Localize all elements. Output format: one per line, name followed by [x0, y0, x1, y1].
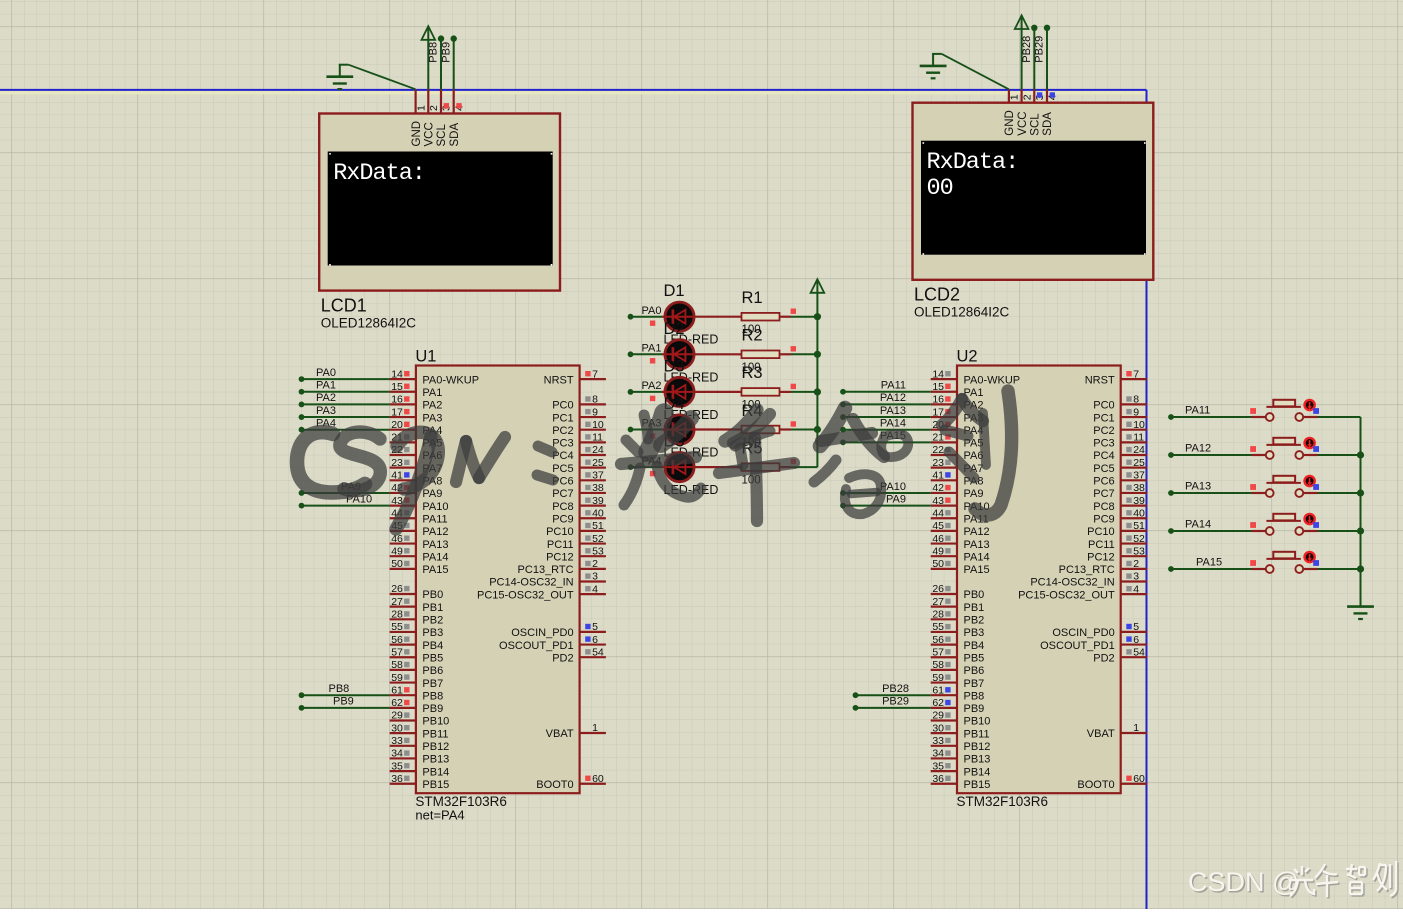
wire ground to LCD1 pin 1 — [348, 65, 415, 90]
wire net PA4 (U1) — [299, 427, 390, 433]
svg-text:VBAT: VBAT — [1087, 728, 1115, 740]
wire SCL (LCD1) — [438, 35, 444, 90]
svg-text:58: 58 — [391, 659, 403, 671]
svg-text:57: 57 — [932, 646, 944, 658]
svg-text:PB0: PB0 — [964, 589, 985, 601]
component ref D4 — [664, 395, 685, 413]
resistor R3 pin indicator — [791, 384, 796, 389]
svg-text:VCC: VCC — [1017, 111, 1029, 135]
svg-text:40: 40 — [1133, 507, 1145, 519]
U2 pin 30 PB11 — [931, 722, 990, 740]
LED D2 value LED-RED — [664, 370, 719, 384]
svg-text:57: 57 — [391, 646, 403, 658]
U2 pin 29 PB10 — [931, 710, 991, 728]
U1 pin 15 PA1 — [390, 381, 443, 399]
U2 pin 46 PA13 — [931, 533, 990, 551]
svg-text:PB9: PB9 — [440, 42, 452, 63]
svg-text:53: 53 — [592, 545, 604, 557]
U1 pin 49 PA14 — [390, 545, 449, 563]
LCD1 screen — [328, 152, 553, 266]
LCD2 screen — [921, 141, 1146, 255]
svg-text:2: 2 — [428, 105, 440, 111]
U1 pin 11 PC3 — [552, 432, 606, 450]
U2 pin 2 PC13_RTC — [1059, 558, 1147, 576]
net label PA10 (U2) — [880, 481, 906, 493]
svg-text:40: 40 — [592, 507, 604, 519]
U1 pin 5 OSCIN_PD0 — [511, 621, 606, 639]
svg-text:PB14: PB14 — [964, 766, 991, 778]
component ref R1 — [742, 289, 763, 307]
svg-text:9: 9 — [1133, 406, 1139, 418]
U2 pin 38 PC7 — [1093, 482, 1147, 500]
svg-text:PA14: PA14 — [880, 418, 906, 430]
ground (buttons) — [1347, 607, 1374, 619]
LED D5 — [662, 453, 742, 482]
U1 pin 38 PC7 — [552, 482, 606, 500]
button SW4 — [1252, 514, 1318, 535]
button SW3 — [1252, 476, 1318, 497]
svg-text:PA13: PA13 — [422, 539, 448, 551]
svg-text:54: 54 — [1133, 646, 1145, 658]
svg-text:16: 16 — [391, 394, 403, 406]
svg-text:10: 10 — [592, 419, 604, 431]
svg-text:PB0: PB0 — [422, 589, 443, 601]
net label PB8 — [428, 42, 440, 63]
net label PA2 — [642, 380, 662, 392]
svg-text:PC4: PC4 — [1093, 450, 1114, 462]
svg-text:20: 20 — [391, 419, 403, 431]
svg-text:PA13: PA13 — [964, 539, 990, 551]
component ref R2 — [742, 327, 763, 345]
svg-text:PA15: PA15 — [1196, 557, 1222, 569]
U2 pin 17 PA3 — [931, 406, 984, 424]
button SW5 pin indicator left — [1250, 560, 1256, 566]
svg-text:55: 55 — [391, 621, 403, 633]
resistor R5 — [742, 463, 792, 471]
resistor R2 pin indicator — [791, 346, 796, 351]
svg-text:28: 28 — [932, 609, 944, 621]
net label PB28 — [1021, 36, 1033, 63]
component ref U1 — [415, 348, 436, 366]
svg-text:34: 34 — [391, 748, 403, 760]
svg-text:44: 44 — [932, 507, 944, 519]
svg-text:60: 60 — [1133, 773, 1145, 785]
svg-text:OSCIN_PD0: OSCIN_PD0 — [1052, 627, 1114, 639]
svg-text:D1: D1 — [664, 282, 685, 300]
svg-text:PB15: PB15 — [422, 779, 449, 791]
svg-text:42: 42 — [932, 482, 944, 494]
wire net PA10 (U1) — [299, 503, 390, 509]
U2 pin 20 PA4 — [931, 419, 984, 437]
U2 pin 25 PC5 — [1093, 457, 1147, 475]
svg-text:PA10: PA10 — [422, 501, 448, 513]
net label PA14 (button) — [1185, 519, 1211, 531]
component ref D3 — [664, 357, 685, 375]
svg-text:46: 46 — [932, 533, 944, 545]
svg-text:43: 43 — [932, 495, 944, 507]
svg-text:LCD1: LCD1 — [321, 296, 367, 316]
svg-text:41: 41 — [932, 470, 944, 482]
svg-text:R3: R3 — [742, 364, 763, 382]
svg-text:7: 7 — [592, 368, 598, 380]
U2 pin 23 PA7 — [931, 457, 984, 475]
svg-text:PC2: PC2 — [552, 425, 573, 437]
svg-text:PA0-WKUP: PA0-WKUP — [422, 374, 479, 386]
U2 pin 57 PB5 — [931, 646, 985, 664]
svg-text:PB3: PB3 — [422, 627, 443, 639]
svg-text:PC10: PC10 — [1087, 526, 1115, 538]
svg-text:PC10: PC10 — [546, 526, 574, 538]
svg-text:62: 62 — [391, 697, 403, 709]
svg-text:11: 11 — [1133, 432, 1144, 444]
button SW2 pin indicator right — [1313, 446, 1319, 452]
svg-text:36: 36 — [391, 773, 403, 785]
component ref D5 — [664, 433, 685, 451]
net label PA13 (U2) — [880, 405, 906, 417]
svg-text:27: 27 — [932, 596, 944, 608]
svg-text:24: 24 — [592, 444, 604, 456]
svg-text:OLED12864I2C: OLED12864I2C — [321, 316, 417, 331]
net label PB29 — [1034, 36, 1046, 63]
svg-text:16: 16 — [932, 394, 944, 406]
svg-text:58: 58 — [932, 659, 944, 671]
wire button row 4 to ground rail — [1318, 527, 1365, 534]
svg-text:PC11: PC11 — [547, 539, 574, 551]
button SW2 pin indicator left — [1250, 446, 1256, 452]
wire net PA15 (U2) — [840, 439, 931, 445]
net label PB9 (U1) — [333, 696, 354, 708]
svg-text:41: 41 — [391, 470, 403, 482]
wire SDA (LCD2) — [1044, 25, 1050, 90]
power VCC arrow (LCD1) — [422, 26, 436, 90]
svg-text:27: 27 — [391, 596, 403, 608]
svg-text:56: 56 — [932, 634, 944, 646]
svg-text:30: 30 — [391, 722, 403, 734]
svg-text:PB8: PB8 — [422, 690, 443, 702]
U1 pin 14 PA0-WKUP — [390, 368, 479, 386]
U2 pin 33 PB12 — [931, 735, 991, 753]
wire PA12 to button — [1168, 452, 1251, 458]
svg-text:PC7: PC7 — [552, 488, 573, 500]
svg-text:PA11: PA11 — [1185, 405, 1210, 417]
svg-text:U2: U2 — [957, 348, 978, 366]
U1 pin 23 PA7 — [390, 457, 443, 475]
svg-text:PC5: PC5 — [1093, 463, 1114, 475]
net label PA4 (U1) — [316, 418, 336, 430]
svg-text:2: 2 — [592, 558, 598, 570]
svg-text:PA11: PA11 — [881, 380, 906, 392]
wire R2 to rail — [791, 351, 821, 358]
svg-text:PB29: PB29 — [1034, 36, 1046, 63]
U2 pin 22 PA6 — [931, 444, 984, 462]
U2 pin 4 PC15-OSC32_OUT — [1018, 583, 1147, 601]
U1 pin 57 PB5 — [390, 646, 444, 664]
U1 pin 27 PB1 — [390, 596, 444, 614]
svg-text:PB28: PB28 — [882, 683, 909, 695]
svg-text:39: 39 — [592, 495, 604, 507]
wire net PA14 (U2) — [840, 427, 931, 433]
U2 pin 44 PA11 — [931, 507, 989, 525]
U1 pin 42 PA9 — [390, 482, 443, 500]
net label PA3 (U1) — [316, 405, 336, 417]
svg-text:51: 51 — [1133, 520, 1145, 532]
svg-text:OSCIN_PD0: OSCIN_PD0 — [511, 627, 573, 639]
wire PA13 to button — [1168, 490, 1251, 496]
svg-text:49: 49 — [932, 545, 944, 557]
wire bus vertical — [1146, 90, 1148, 909]
svg-text:37: 37 — [592, 470, 604, 482]
LED D3 — [662, 377, 742, 406]
svg-text:PB9: PB9 — [333, 696, 354, 708]
svg-text:RxData:: RxData: — [927, 149, 1019, 176]
U1 pin 52 PC11 — [547, 533, 606, 551]
wire net PA9 (U1) — [299, 490, 390, 496]
svg-text:PA9: PA9 — [422, 488, 442, 500]
svg-text:R1: R1 — [742, 289, 763, 307]
svg-text:55: 55 — [932, 621, 944, 633]
svg-text:GND: GND — [411, 121, 423, 147]
U2 pin 37 PC6 — [1093, 470, 1147, 488]
net label PA3 — [642, 418, 662, 430]
svg-text:PB10: PB10 — [964, 716, 991, 728]
svg-text:22: 22 — [932, 444, 944, 456]
svg-text:36: 36 — [932, 773, 944, 785]
wire bus horizontal — [0, 89, 1147, 91]
svg-text:1: 1 — [415, 105, 427, 111]
svg-text:PB15: PB15 — [964, 779, 991, 791]
svg-text:PC14-OSC32_IN: PC14-OSC32_IN — [1030, 577, 1114, 589]
svg-text:OLED12864I2C: OLED12864I2C — [914, 305, 1010, 320]
svg-text:50: 50 — [391, 558, 403, 570]
U2 pin 5 OSCIN_PD0 — [1052, 621, 1147, 639]
svg-text:PB2: PB2 — [964, 615, 985, 627]
U1 pin 61 PB8 — [390, 684, 444, 702]
wire PA2 to D3 — [628, 389, 662, 395]
U1 pin 55 PB3 — [390, 621, 444, 639]
U1 pin 60 BOOT0 — [536, 773, 606, 791]
LCD1 pin stubs 1-4 — [416, 90, 454, 114]
svg-text:PC0: PC0 — [1093, 400, 1114, 412]
LCD2 value OLED12864I2C — [914, 305, 1010, 320]
svg-text:PB28: PB28 — [1021, 36, 1033, 63]
svg-text:SCL: SCL — [436, 124, 448, 147]
svg-text:PC9: PC9 — [552, 513, 573, 525]
U2 pin 14 PA0-WKUP — [931, 368, 1020, 386]
U2 pin 10 PC2 — [1093, 419, 1147, 437]
LED D2 — [662, 340, 742, 369]
svg-text:NRST: NRST — [544, 374, 574, 386]
svg-text:2: 2 — [1021, 94, 1033, 100]
svg-text:15: 15 — [932, 381, 944, 393]
svg-text:PC7: PC7 — [1093, 488, 1114, 500]
net label PA13 (button) — [1185, 481, 1211, 493]
svg-text:1: 1 — [592, 722, 598, 734]
wire PA4 to D5 — [628, 464, 662, 470]
svg-text:26: 26 — [932, 583, 944, 595]
wire PA3 to D4 — [628, 427, 662, 433]
svg-text:PB5: PB5 — [964, 652, 985, 664]
U1 pin 6 OSCOUT_PD1 — [499, 634, 606, 652]
svg-text:53: 53 — [1133, 545, 1145, 557]
wire net PB29 (U2) — [853, 705, 931, 711]
U2 pin 27 PB1 — [931, 596, 985, 614]
U2 pin 35 PB14 — [931, 760, 991, 778]
svg-text:PC12: PC12 — [546, 551, 574, 563]
resistor R2 — [742, 351, 792, 359]
svg-text:49: 49 — [391, 545, 403, 557]
svg-text:PA12: PA12 — [422, 526, 448, 538]
button SW1 actuator — [1305, 400, 1315, 410]
svg-text:17: 17 — [391, 406, 403, 418]
svg-text:PA12: PA12 — [880, 392, 906, 404]
U1 pin 2 PC13_RTC — [518, 558, 606, 576]
wire net PB9 (U1) — [299, 705, 390, 711]
button SW3 actuator — [1305, 476, 1315, 486]
component ref LCD1 — [321, 296, 367, 316]
svg-text:5: 5 — [1133, 621, 1139, 633]
svg-text:PA1: PA1 — [316, 380, 336, 392]
svg-text:PC5: PC5 — [552, 463, 573, 475]
svg-text:29: 29 — [391, 710, 403, 722]
svg-text:U1: U1 — [415, 348, 436, 366]
U1 pin 59 PB7 — [390, 672, 444, 690]
U2 value STM32F103R6 — [957, 794, 1049, 809]
highlight band under bus — [0, 91, 1147, 94]
net label PA0 — [642, 305, 662, 317]
ground (near LCD1) — [326, 65, 353, 89]
watermark CSDN calligraphy — [297, 391, 1012, 529]
svg-text:PA3: PA3 — [316, 405, 336, 417]
svg-text:35: 35 — [391, 760, 403, 772]
svg-text:PA15: PA15 — [964, 564, 990, 576]
button SW5 actuator — [1305, 552, 1315, 562]
svg-text:26: 26 — [391, 583, 403, 595]
svg-text:R2: R2 — [742, 327, 763, 345]
svg-text:GND: GND — [1004, 110, 1016, 136]
svg-text:14: 14 — [932, 368, 944, 380]
net label PA9 (U2) — [886, 493, 906, 505]
U2 pin 55 PB3 — [931, 621, 985, 639]
svg-text:PB8: PB8 — [428, 42, 440, 63]
wire button row 2 to ground rail — [1318, 451, 1365, 458]
LED D5 pin indicator — [650, 471, 655, 476]
U1 pin 53 PC12 — [546, 545, 606, 563]
U1 pin 9 PC1 — [552, 406, 606, 424]
LED D1 pin indicator — [650, 321, 655, 326]
svg-text:45: 45 — [932, 520, 944, 532]
U1 pin 21 PA5 — [390, 432, 443, 450]
svg-text:PC13_RTC: PC13_RTC — [518, 564, 574, 576]
svg-text:61: 61 — [391, 684, 403, 696]
svg-text:PC6: PC6 — [1093, 476, 1114, 488]
svg-text:9: 9 — [592, 406, 598, 418]
svg-text:PA14: PA14 — [1185, 519, 1211, 531]
svg-text:PB14: PB14 — [422, 766, 449, 778]
wire net PA12 (U2) — [840, 402, 931, 408]
U2 pin 51 PC10 — [1087, 520, 1147, 538]
net label PA9 (U1) — [341, 481, 361, 493]
svg-text:59: 59 — [391, 672, 403, 684]
svg-text:PC11: PC11 — [1088, 539, 1115, 551]
svg-text:3: 3 — [1133, 571, 1139, 583]
svg-text:PA13: PA13 — [1185, 481, 1211, 493]
U1 pin 29 PB10 — [390, 710, 450, 728]
svg-text:33: 33 — [932, 735, 944, 747]
MCU U1 body — [416, 366, 580, 794]
svg-text:PD2: PD2 — [552, 652, 573, 664]
svg-text:PC9: PC9 — [1093, 513, 1114, 525]
button SW2 — [1252, 438, 1318, 459]
svg-text:PB1: PB1 — [964, 602, 985, 614]
wire net PB28 (U2) — [853, 692, 931, 698]
svg-text:PC1: PC1 — [1093, 412, 1114, 424]
U2 pin 54 PD2 — [1093, 646, 1147, 664]
U1 pin 44 PA11 — [390, 507, 448, 525]
svg-text:00: 00 — [927, 175, 953, 202]
svg-text:PC0: PC0 — [552, 400, 573, 412]
U1 pin 36 PB15 — [390, 773, 450, 791]
U1 pin 37 PC6 — [552, 470, 606, 488]
LCD LCD1 body — [319, 114, 560, 291]
svg-text:SDA: SDA — [1042, 112, 1054, 136]
net label PB8 (U1) — [329, 683, 350, 695]
U2 pin 16 PA2 — [931, 394, 984, 412]
svg-text:11: 11 — [592, 432, 603, 444]
svg-text:PA12: PA12 — [964, 526, 990, 538]
svg-text:BOOT0: BOOT0 — [536, 779, 573, 791]
component ref D1 — [664, 282, 685, 300]
svg-text:PB9: PB9 — [964, 703, 985, 715]
U1 pin 26 PB0 — [390, 583, 444, 601]
svg-text:PB8: PB8 — [329, 683, 350, 695]
wire net PA3 (U1) — [299, 414, 390, 420]
svg-text:PA0: PA0 — [316, 367, 336, 379]
button SW3 pin indicator right — [1313, 484, 1319, 490]
svg-text:62: 62 — [932, 697, 944, 709]
svg-text:PB5: PB5 — [422, 652, 443, 664]
net label PA1 — [642, 343, 662, 355]
U2 pin 11 PC3 — [1093, 432, 1147, 450]
svg-text:OSCOUT_PD1: OSCOUT_PD1 — [499, 640, 574, 652]
wire button row 1 to ground rail — [1318, 416, 1361, 418]
net label PA15 (button) — [1196, 557, 1222, 569]
wire PA15 to button — [1168, 566, 1251, 572]
resistor R1 pin indicator — [791, 309, 796, 314]
svg-text:NRST: NRST — [1085, 374, 1115, 386]
wire R1 to rail — [791, 313, 821, 320]
svg-text:PA14: PA14 — [964, 551, 990, 563]
LCD1 pin 3 indicator — [444, 103, 449, 108]
svg-text:PA1: PA1 — [422, 387, 442, 399]
U2 pin 59 PB7 — [931, 672, 985, 690]
svg-text:PA2: PA2 — [642, 380, 662, 392]
U2 pin 21 PA5 — [931, 432, 984, 450]
LCD1 pin names GND VCC SCL SDA — [411, 121, 461, 147]
wire R3 to rail — [791, 388, 821, 395]
U1 pin 4 PC15-OSC32_OUT — [477, 583, 606, 601]
svg-text:PB8: PB8 — [964, 690, 985, 702]
wire PA11 to button — [1168, 414, 1251, 420]
U1 pin 3 PC14-OSC32_IN — [489, 571, 606, 589]
U1 pin 39 PC8 — [552, 495, 606, 513]
U1 pin 62 PB9 — [390, 697, 444, 715]
component ref R4 — [742, 402, 763, 420]
U2 pin 7 NRST — [1085, 368, 1147, 386]
svg-text:PB10: PB10 — [422, 716, 449, 728]
watermark CSDN @ bottom right — [1188, 861, 1398, 899]
svg-text:PB11: PB11 — [422, 728, 448, 740]
wire PA1 to D2 — [628, 351, 662, 357]
